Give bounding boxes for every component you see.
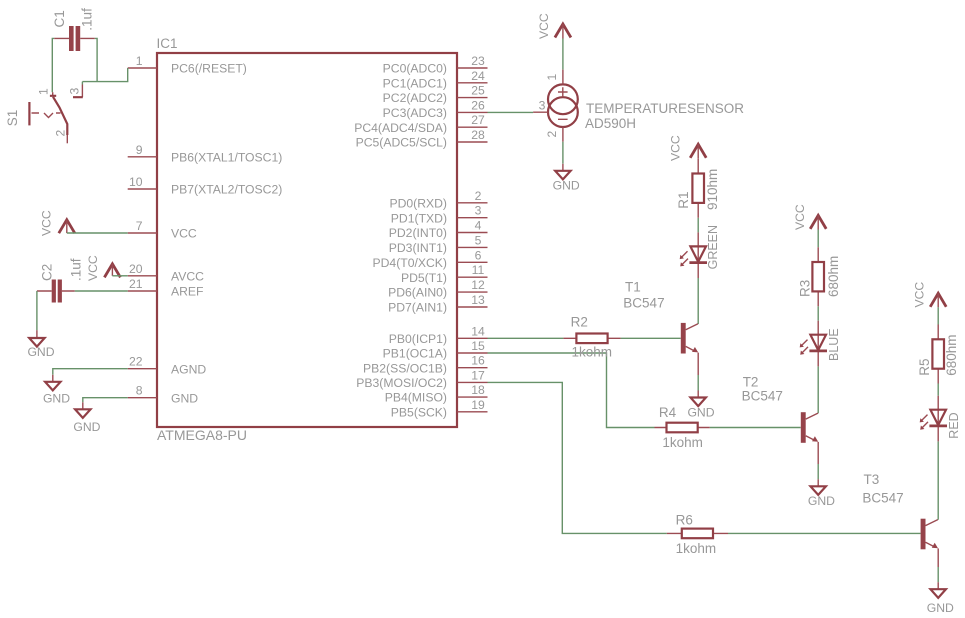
svg-text:PC5(ADC5/SCL): PC5(ADC5/SCL) <box>356 136 447 150</box>
svg-text:27: 27 <box>471 113 485 127</box>
svg-text:PC6(/RESET): PC6(/RESET) <box>171 62 247 76</box>
svg-text:PD1(TXD): PD1(TXD) <box>391 211 447 225</box>
svg-text:PB5(SCK): PB5(SCK) <box>391 405 447 419</box>
svg-text:1kohm: 1kohm <box>572 345 613 360</box>
svg-text:14: 14 <box>471 324 485 338</box>
svg-text:GND: GND <box>927 601 954 615</box>
svg-text:10: 10 <box>129 175 143 189</box>
svg-text:PD7(AIN1): PD7(AIN1) <box>388 301 447 315</box>
svg-text:11: 11 <box>472 263 485 277</box>
svg-text:AVCC: AVCC <box>171 269 204 283</box>
svg-text:7: 7 <box>136 219 143 233</box>
svg-text:18: 18 <box>471 383 485 397</box>
svg-text:BC547: BC547 <box>742 389 783 404</box>
svg-text:RED: RED <box>947 412 961 438</box>
svg-text:20: 20 <box>129 262 143 276</box>
svg-text:12: 12 <box>471 278 485 292</box>
svg-text:4: 4 <box>475 219 482 233</box>
svg-text:C1: C1 <box>52 10 67 27</box>
svg-text:1kohm: 1kohm <box>662 435 703 450</box>
svg-text:VCC: VCC <box>793 204 807 230</box>
svg-text:PB3(MOSI/OC2): PB3(MOSI/OC2) <box>356 376 447 390</box>
svg-text:VCC: VCC <box>537 13 551 39</box>
svg-text:1: 1 <box>545 74 559 81</box>
svg-text:AGND: AGND <box>171 362 206 376</box>
svg-text:23: 23 <box>471 54 485 68</box>
svg-text:R3: R3 <box>798 280 813 297</box>
svg-text:PD3(INT1): PD3(INT1) <box>389 241 447 255</box>
svg-text:GND: GND <box>553 179 580 193</box>
svg-text:21: 21 <box>129 277 143 291</box>
svg-text:.1uf: .1uf <box>80 8 95 31</box>
svg-text:BC547: BC547 <box>862 491 903 506</box>
svg-text:AREF: AREF <box>171 285 204 299</box>
svg-text:R6: R6 <box>676 513 693 528</box>
svg-text:R1: R1 <box>676 192 691 209</box>
svg-text:VCC: VCC <box>171 227 197 241</box>
svg-text:2: 2 <box>54 130 68 137</box>
svg-text:GND: GND <box>27 345 54 359</box>
svg-text:S1: S1 <box>5 110 20 127</box>
svg-text:PC0(ADC0): PC0(ADC0) <box>383 62 447 76</box>
svg-text:2: 2 <box>475 189 482 203</box>
svg-text:VCC: VCC <box>86 255 100 281</box>
svg-text:T2: T2 <box>743 375 759 390</box>
svg-text:PB4(MISO): PB4(MISO) <box>385 391 447 405</box>
svg-text:T3: T3 <box>864 472 880 487</box>
svg-text:16: 16 <box>471 354 485 368</box>
svg-text:680hm: 680hm <box>944 335 959 376</box>
svg-text:1: 1 <box>136 54 143 68</box>
svg-text:PC3(ADC3): PC3(ADC3) <box>383 106 447 120</box>
svg-text:25: 25 <box>471 84 485 98</box>
svg-text:R4: R4 <box>659 405 677 420</box>
svg-text:VCC: VCC <box>913 282 927 308</box>
svg-text:R5: R5 <box>917 359 932 376</box>
svg-text:GND: GND <box>43 392 70 406</box>
svg-text:R2: R2 <box>571 314 588 329</box>
svg-text:PD4(T0/XCK): PD4(T0/XCK) <box>373 256 448 270</box>
svg-text:1kohm: 1kohm <box>676 541 717 556</box>
svg-text:C2: C2 <box>40 264 55 281</box>
svg-text:28: 28 <box>471 128 485 142</box>
svg-text:PB7(XTAL2/TOSC2): PB7(XTAL2/TOSC2) <box>171 183 282 197</box>
svg-text:8: 8 <box>136 384 143 398</box>
svg-text:PB1(OC1A): PB1(OC1A) <box>383 347 447 361</box>
svg-text:ATMEGA8-PU: ATMEGA8-PU <box>157 427 247 443</box>
svg-text:PB0(ICP1): PB0(ICP1) <box>389 332 447 346</box>
svg-text:3: 3 <box>539 99 546 113</box>
svg-text:19: 19 <box>471 398 485 412</box>
svg-text:PB6(XTAL1/TOSC1): PB6(XTAL1/TOSC1) <box>171 150 282 164</box>
svg-text:T1: T1 <box>625 280 641 295</box>
svg-text:9: 9 <box>136 143 143 157</box>
svg-text:910hm: 910hm <box>705 169 720 210</box>
svg-text:PD6(AIN0): PD6(AIN0) <box>388 286 447 300</box>
svg-text:VCC: VCC <box>669 135 683 161</box>
svg-text:15: 15 <box>471 339 485 353</box>
svg-text:17: 17 <box>471 368 485 382</box>
svg-text:PD2(INT0): PD2(INT0) <box>389 226 447 240</box>
svg-text:GND: GND <box>73 420 100 434</box>
svg-text:BC547: BC547 <box>623 295 664 310</box>
svg-text:VCC: VCC <box>40 210 54 236</box>
svg-text:IC1: IC1 <box>157 36 178 51</box>
svg-text:PD0(RXD): PD0(RXD) <box>389 196 447 210</box>
svg-text:PB2(SS/OC1B): PB2(SS/OC1B) <box>363 361 447 375</box>
svg-text:GND: GND <box>808 494 835 508</box>
svg-text:680hm: 680hm <box>826 256 841 297</box>
svg-text:GREEN: GREEN <box>706 225 720 269</box>
svg-text:24: 24 <box>471 69 485 83</box>
svg-text:PC4(ADC4/SDA): PC4(ADC4/SDA) <box>354 121 447 135</box>
svg-text:22: 22 <box>129 355 143 369</box>
svg-text:26: 26 <box>471 98 485 112</box>
svg-text:GND: GND <box>171 391 198 405</box>
svg-text:6: 6 <box>475 248 482 262</box>
svg-text:AD590H: AD590H <box>585 116 636 131</box>
svg-text:3: 3 <box>68 88 82 95</box>
svg-text:1: 1 <box>37 88 51 95</box>
svg-text:3: 3 <box>475 204 482 218</box>
svg-text:2: 2 <box>545 131 559 138</box>
svg-text:13: 13 <box>471 293 485 307</box>
svg-text:PC2(ADC2): PC2(ADC2) <box>383 91 447 105</box>
svg-text:BLUE: BLUE <box>827 328 841 361</box>
svg-text:TEMPERATURESENSOR: TEMPERATURESENSOR <box>586 101 744 116</box>
svg-text:5: 5 <box>475 233 482 247</box>
svg-text:PC1(ADC1): PC1(ADC1) <box>383 76 447 90</box>
svg-text:.1uf: .1uf <box>69 258 84 281</box>
svg-text:GND: GND <box>687 406 714 420</box>
svg-text:PD5(T1): PD5(T1) <box>401 271 447 285</box>
